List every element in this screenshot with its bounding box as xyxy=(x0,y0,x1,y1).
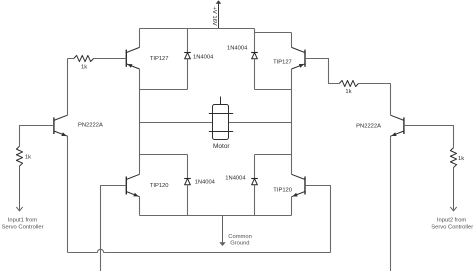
wire motor right lead xyxy=(229,122,292,124)
label R3 1k xyxy=(25,154,31,160)
svg-text:1N4004: 1N4004 xyxy=(195,180,216,186)
label D1 1N4004 xyxy=(193,54,214,60)
diode D3 1N4004 (lower left) xyxy=(184,179,191,185)
wire input2 lead xyxy=(453,168,455,210)
wire Q5 base run xyxy=(20,126,54,147)
wire node B row (right, upper) xyxy=(255,89,292,91)
motor M1 terminal bar top xyxy=(209,113,233,115)
power supply +V arrow xyxy=(216,0,222,28)
label R4 1k xyxy=(458,156,464,162)
svg-text:1N4004: 1N4004 xyxy=(193,54,214,60)
label R2 1k xyxy=(345,89,351,95)
svg-text:PN2222A: PN2222A xyxy=(78,123,103,129)
label Q2 TIP127 xyxy=(273,59,292,65)
svg-text:TIP127: TIP127 xyxy=(273,59,292,65)
wire left column xyxy=(139,69,141,174)
wire Q3 base run xyxy=(101,186,127,271)
svg-text:TIP120: TIP120 xyxy=(273,187,292,193)
wire rail step to right collector xyxy=(255,29,292,33)
wire D2 cathode lead xyxy=(254,29,256,53)
svg-text:Motor: Motor xyxy=(213,143,230,150)
label D3 1N4004 xyxy=(195,180,216,186)
label R1 1k xyxy=(81,64,87,70)
input1 open arrow xyxy=(16,207,22,211)
wire Q1 collector stub xyxy=(139,29,141,48)
svg-text:1k: 1k xyxy=(345,89,351,95)
wire Q4 emitter lead xyxy=(291,197,293,216)
svg-text:Input1 from: Input1 from xyxy=(8,217,37,223)
wire D3 cathode lead xyxy=(187,155,189,179)
motor M1 terminal bar bottom xyxy=(209,131,233,133)
svg-text:1k: 1k xyxy=(81,64,87,70)
label Motor xyxy=(213,143,230,150)
resistor R2 1k xyxy=(339,80,358,86)
wire D4 cathode lead xyxy=(254,155,256,179)
wire motor left lead xyxy=(140,122,213,124)
label Input2 from Servo Controller xyxy=(431,218,473,231)
svg-text:Common: Common xyxy=(228,234,252,240)
wire top rail xyxy=(140,28,255,30)
wire node A row (left, lower) xyxy=(140,154,188,156)
wire Q5 collector xyxy=(67,59,69,116)
wire bottom rail with hop xyxy=(68,249,331,252)
svg-text:Servo Controller: Servo Controller xyxy=(2,224,44,230)
wire node B row (right, lower) xyxy=(255,154,292,156)
svg-text:1N4004: 1N4004 xyxy=(225,175,246,181)
wire D4 anode lead xyxy=(254,185,256,216)
transistor Q5 PN2222A (left NPN) xyxy=(54,115,68,136)
input2 open arrow xyxy=(450,207,456,211)
wire node A row (left, upper) xyxy=(140,89,188,91)
svg-text:1N4004: 1N4004 xyxy=(227,45,248,51)
diode D4 1N4004 (lower right) xyxy=(251,179,258,185)
wire right column xyxy=(291,69,293,174)
wire Q6 emitter xyxy=(390,136,392,271)
resistor R1 1k xyxy=(74,55,94,61)
label D2 1N4004 xyxy=(227,45,248,51)
diode D1 1N4004 (upper left) xyxy=(184,53,191,59)
wire input1 lead xyxy=(19,166,21,210)
motor M1 body xyxy=(213,105,229,140)
label +V 16V xyxy=(211,7,217,26)
label Q3 TIP120 xyxy=(150,183,169,189)
resistor R4 1k xyxy=(450,148,456,168)
wire D2 anode lead xyxy=(254,59,256,90)
wire Q5 emitter xyxy=(67,136,69,253)
svg-text:1k: 1k xyxy=(458,156,464,162)
ground common arrow xyxy=(219,216,225,247)
label Q6 PN2222A xyxy=(356,123,381,129)
svg-text:+V 16V: +V 16V xyxy=(211,7,217,26)
svg-text:TIP127: TIP127 xyxy=(150,56,169,62)
transistor Q3 TIP120 (lower left NPN) xyxy=(126,174,139,196)
wire D1 anode lead xyxy=(187,59,189,90)
transistor Q2 TIP127 (upper right PNP) xyxy=(292,47,306,69)
transistor Q6 PN2222A (right NPN) xyxy=(391,115,404,136)
label Input1 from Servo Controller xyxy=(2,217,44,230)
wire D1 cathode lead xyxy=(187,29,189,53)
wire Q4 base run xyxy=(305,186,331,253)
diode D2 1N4004 (upper right) xyxy=(251,53,258,59)
wire D3 anode lead xyxy=(187,185,189,216)
svg-text:TIP120: TIP120 xyxy=(150,183,169,189)
svg-text:Ground: Ground xyxy=(230,241,249,247)
wire Q2 collector stub xyxy=(291,33,293,48)
label Q4 TIP120 xyxy=(273,187,292,193)
wire Q3 emitter lead xyxy=(139,197,141,216)
label Q5 PN2222A xyxy=(78,123,103,129)
label Q1 TIP127 xyxy=(150,56,169,62)
label Common Ground xyxy=(228,234,252,247)
wire R2 to Q6 collector xyxy=(358,84,390,116)
resistor R3 1k xyxy=(16,146,22,166)
motor M1 shaft stub xyxy=(220,97,222,105)
svg-text:Input2 from: Input2 from xyxy=(437,218,466,224)
wire Q2 base run xyxy=(305,59,339,84)
label D4 1N4004 xyxy=(225,175,246,181)
svg-text:PN2222A: PN2222A xyxy=(356,123,381,129)
svg-text:Servo Controller: Servo Controller xyxy=(431,225,473,231)
transistor Q1 TIP127 (upper left PNP) xyxy=(126,47,139,69)
transistor Q4 TIP120 (lower right NPN) xyxy=(292,174,306,196)
wire Q6 base run xyxy=(404,126,454,148)
svg-text:1k: 1k xyxy=(25,154,31,160)
wire emitter rail xyxy=(140,215,292,217)
wire R1 leads xyxy=(68,58,127,60)
